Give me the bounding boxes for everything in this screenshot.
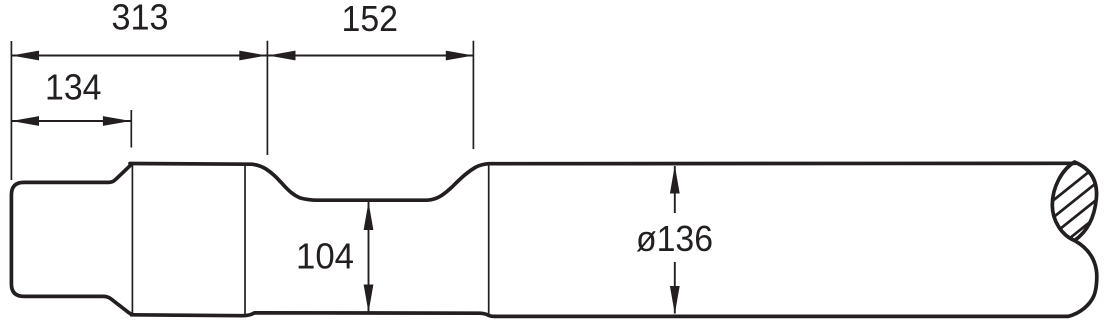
arrow up tip y=165.5 bbox=[670, 166, 680, 194]
svg-text:152: 152 bbox=[342, 0, 399, 39]
dimension line o136 upper segment bbox=[674, 166, 676, 213]
arrow down tip y=314 bbox=[670, 286, 680, 314]
hatch lines inside lens bbox=[1050, 163, 1100, 254]
tool body outline: top edge with retainer groove bbox=[130, 163, 1076, 200]
extension line left (x=11) bbox=[10, 41, 12, 180]
arrow right tip x=473 bbox=[446, 51, 474, 61]
arrow down tip y=312.5 bbox=[364, 285, 374, 313]
internal edge line at x=488.7 bbox=[488, 165, 490, 316]
svg-text:ø136: ø136 bbox=[636, 218, 713, 259]
svg-text:104: 104 bbox=[296, 236, 354, 277]
dimension line 313 bbox=[11, 55, 267, 57]
dimension line o136 lower segment bbox=[674, 262, 676, 314]
dimension line 104 (vertical) bbox=[368, 202, 370, 313]
tool body outline: shank left section bbox=[11, 164, 132, 315]
extension line for 134 (x=131.3) bbox=[130, 110, 132, 148]
arrow right-pointing tip x=267 bbox=[239, 51, 267, 61]
break symbol: hatched lens at right end bbox=[1052, 162, 1096, 241]
arrow up tip y=201 bbox=[364, 202, 374, 230]
arrow right tip x=130.5 y=121 bbox=[103, 116, 131, 126]
arrow left tip x=11 y=121 bbox=[11, 116, 39, 126]
extension line right (x=473) bbox=[472, 41, 474, 149]
arrow left-pointing tip x=267 bbox=[268, 51, 296, 61]
internal edge line at x=245 bbox=[244, 165, 246, 315]
dimension line 152 bbox=[267, 55, 473, 57]
extension line middle (x=267) bbox=[266, 41, 268, 155]
internal edge line at x=132 bbox=[131, 165, 133, 314]
tool body outline: bottom edge bbox=[132, 241, 1097, 317]
svg-text:134: 134 bbox=[45, 67, 102, 108]
svg-text:313: 313 bbox=[112, 0, 169, 38]
arrow left tip x=11 y=55.5 bbox=[11, 51, 39, 61]
dimension line 134 bbox=[11, 120, 130, 122]
